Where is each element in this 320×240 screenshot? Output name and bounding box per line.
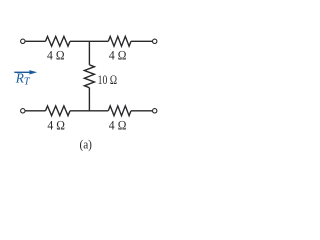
wire center vertical lower segment bbox=[88, 88, 90, 111]
wire bottom-right segment bbox=[131, 110, 152, 112]
terminal bottom-right open circle bbox=[153, 109, 157, 113]
arrow RT pointing right bbox=[14, 70, 37, 74]
resistor R2 4Ω top-right zigzag bbox=[108, 36, 131, 46]
svg-text:4 Ω: 4 Ω bbox=[109, 47, 127, 62]
svg-text:4 Ω: 4 Ω bbox=[109, 117, 127, 132]
terminal top-left open circle bbox=[21, 39, 25, 43]
wire top-left segment bbox=[25, 40, 45, 42]
svg-text:(a): (a) bbox=[79, 137, 92, 151]
wire bottom-middle segment bbox=[70, 110, 108, 112]
resistor R3 10Ω vertical zigzag bbox=[84, 65, 94, 88]
wire top-right segment bbox=[131, 40, 152, 42]
terminal bottom-left open circle bbox=[21, 109, 25, 113]
wire bottom-left segment bbox=[25, 110, 45, 112]
terminal top-right open circle bbox=[153, 39, 157, 43]
svg-text:RT: RT bbox=[15, 71, 31, 88]
resistor R5 4Ω bottom-right zigzag bbox=[108, 106, 131, 116]
wire center vertical upper segment bbox=[88, 41, 90, 65]
resistor R1 4Ω top-left zigzag bbox=[46, 36, 71, 46]
svg-text:4 Ω: 4 Ω bbox=[47, 47, 65, 62]
resistor R4 4Ω bottom-left zigzag bbox=[46, 106, 71, 116]
svg-text:10 Ω: 10 Ω bbox=[98, 72, 118, 87]
svg-text:4 Ω: 4 Ω bbox=[47, 117, 65, 132]
wire top-middle segment bbox=[70, 40, 108, 42]
